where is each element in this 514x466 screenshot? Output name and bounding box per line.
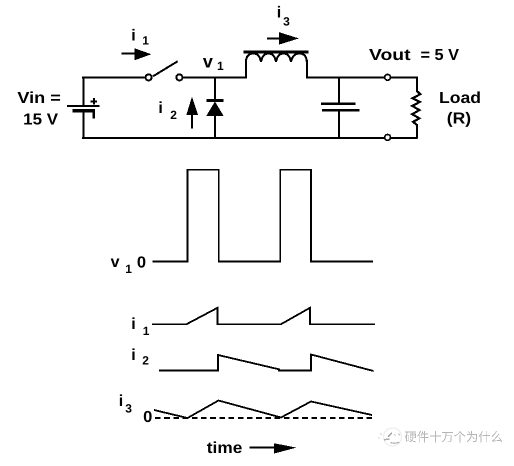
svg-text:2: 2 (142, 354, 149, 368)
output terminal top (385, 74, 391, 80)
capacitor C1 top plate (321, 103, 356, 105)
battery B1 plates (67, 105, 100, 107)
svg-text:Vout: Vout (369, 47, 411, 64)
svg-text:0: 0 (143, 409, 152, 426)
battery minus tick (93, 113, 96, 119)
svg-text:3: 3 (125, 401, 132, 415)
svg-text:= 5 V: = 5 V (421, 47, 460, 64)
current arrow i1 (122, 52, 137, 54)
waveform v1 (153, 170, 374, 262)
inductor L1 winding arcs (246, 54, 307, 63)
battery plus label (91, 100, 98, 102)
svg-text:i: i (158, 100, 162, 117)
capacitor C1 top wire (338, 77, 340, 105)
svg-text:Vin =: Vin = (17, 90, 60, 107)
capacitor C1 bottom plate (322, 109, 360, 111)
wire top rail left segment (82, 77, 145, 79)
svg-text:0: 0 (137, 255, 146, 272)
wire top rail right segment (inductor to terminal) (306, 77, 385, 79)
wire left vertical (battery branch) (82, 77, 84, 106)
time axis arrow (249, 446, 275, 448)
svg-text:i: i (131, 28, 135, 45)
diode D1 vertical wire top (214, 77, 216, 101)
output terminal bottom (385, 135, 391, 141)
svg-text:1: 1 (142, 34, 149, 48)
current arrow i3 (267, 37, 281, 39)
svg-text:v: v (111, 254, 120, 271)
svg-text:3: 3 (283, 14, 290, 28)
inductor L1 left riser (245, 60, 247, 79)
svg-text:1: 1 (125, 262, 132, 276)
diode D1 vertical wire bottom (214, 115, 216, 139)
svg-text:i: i (119, 393, 123, 410)
zero dashed line for i3 (155, 417, 373, 419)
wire top rail middle segment (switch to inductor riser) (183, 77, 248, 79)
capacitor C1 bottom wire (338, 111, 340, 139)
wire top rail terminal to load corner (390, 77, 417, 79)
svg-text:time: time (207, 440, 243, 457)
wire bottom rail (82, 137, 385, 139)
switch S1 right contact (176, 74, 182, 80)
diode D1 triangle (206, 102, 223, 117)
svg-text:(R): (R) (447, 110, 471, 127)
svg-text:1: 1 (143, 324, 150, 338)
diode D1 cathode bar (207, 99, 224, 102)
svg-text:i: i (131, 316, 135, 333)
waveform i3 (154, 401, 372, 419)
watermark logo circle (379, 428, 402, 446)
waveform i2 (159, 355, 374, 372)
svg-text:15 V: 15 V (23, 112, 58, 129)
current arrow i2 (up) (191, 113, 193, 129)
svg-text:1: 1 (217, 59, 224, 73)
waveform i1 (152, 308, 375, 324)
svg-text:i: i (131, 347, 135, 364)
svg-text:2: 2 (170, 108, 177, 122)
svg-text:i: i (277, 4, 281, 21)
switch S1 blade (153, 61, 178, 76)
svg-text:v: v (203, 52, 213, 72)
switch S1 left contact (146, 74, 152, 80)
svg-text:Load: Load (439, 90, 481, 107)
inductor L1 right riser (306, 60, 308, 79)
inductor L1 core bar (244, 51, 309, 54)
watermark text (405, 431, 502, 442)
resistor R load branch with zigzag (412, 77, 420, 139)
